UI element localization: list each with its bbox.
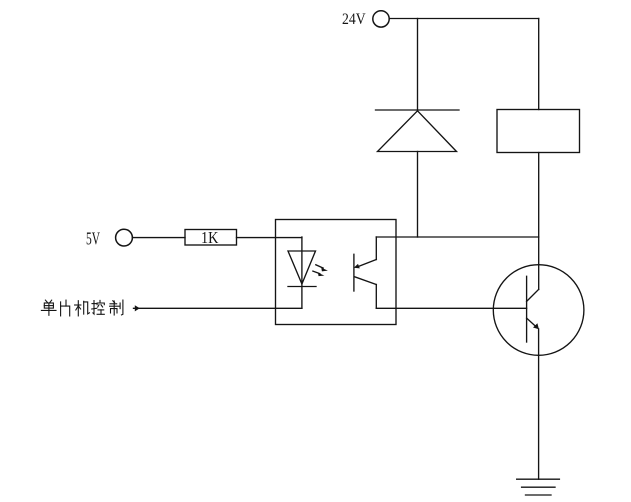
- svg-text:24V: 24V: [342, 11, 366, 28]
- svg-text:5V: 5V: [86, 229, 100, 249]
- svg-text:1K: 1K: [201, 228, 218, 247]
